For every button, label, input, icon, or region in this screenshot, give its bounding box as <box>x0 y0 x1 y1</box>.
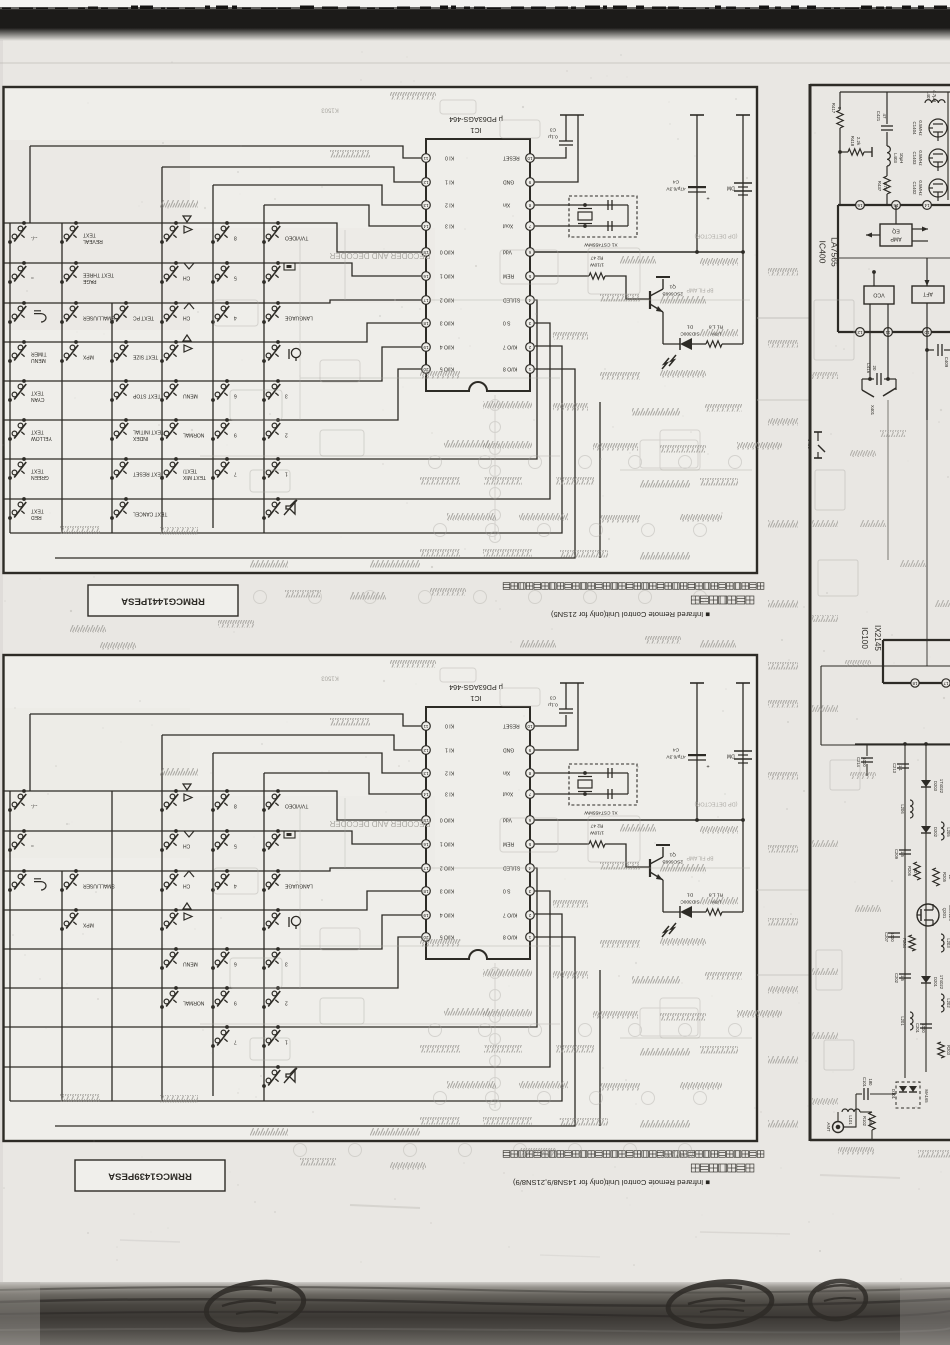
capacitor C209 <box>894 849 911 860</box>
svg-text:C1404: C1404 <box>912 122 917 135</box>
svg-text:C1403: C1403 <box>912 152 917 165</box>
resistor R206 <box>907 862 920 880</box>
svg-text:14: 14 <box>924 203 930 208</box>
svg-text:12: 12 <box>857 330 863 335</box>
switch SW text pc <box>110 301 154 324</box>
svg-text:13: 13 <box>423 203 429 208</box>
resistor R417 <box>831 92 843 205</box>
wire S1/LED net row 7 <box>4 868 537 1027</box>
ghost wash top-left matrix <box>5 140 190 330</box>
diode D101 MA165 <box>891 1082 929 1108</box>
svg-text:1: 1 <box>528 935 531 940</box>
key icon chevron <box>184 831 194 837</box>
IC100 pin 18 <box>911 679 919 687</box>
wire Vdd rail <box>535 251 743 253</box>
wire key column 1 <box>9 791 11 1101</box>
svg-text:C209: C209 <box>894 849 899 860</box>
key icon mute <box>284 1068 297 1083</box>
svg-text:SMALL/USER: SMALL/USER <box>83 883 115 889</box>
svg-text:X1 CST455MW: X1 CST455MW <box>584 242 618 248</box>
wire R2 to base <box>605 276 650 299</box>
ghost wash top-left matrix <box>5 708 190 858</box>
capacitor C421 <box>876 92 893 146</box>
pin 19 KI/O 4 <box>422 343 454 352</box>
svg-text:MENU: MENU <box>183 961 198 967</box>
wire aux vertical <box>599 970 601 1126</box>
switch SW iq <box>262 340 280 363</box>
bottom page curl band <box>0 1282 950 1345</box>
svg-text:μ PD63AGS-464: μ PD63AGS-464 <box>449 115 503 124</box>
svg-text:NORMAL: NORMAL <box>183 432 205 438</box>
switch SW key6 <box>211 379 237 402</box>
wire down to IF <box>926 420 928 666</box>
switch SW -/- <box>8 221 37 244</box>
svg-text:MENU: MENU <box>183 393 198 399</box>
resistor R2 <box>535 823 605 847</box>
svg-text:TEXT INITIAL: TEXT INITIAL <box>133 429 164 435</box>
switch SW text yellow <box>8 418 52 441</box>
switch SW text size <box>110 340 158 363</box>
switch SW vol up <box>160 340 178 363</box>
svg-text:TEXT STOP: TEXT STOP <box>132 393 160 399</box>
switch SW key2 <box>262 418 288 441</box>
pin 5 REM <box>503 840 534 849</box>
capacitor C4 <box>666 115 710 252</box>
resistor R1 <box>692 324 743 347</box>
tuner wires <box>843 1094 856 1127</box>
svg-text:○: ○ <box>31 843 34 849</box>
switch SW ch up <box>160 301 190 324</box>
switch SW mpx <box>60 340 94 363</box>
switch SW key9 <box>211 986 237 1009</box>
svg-text:6: 6 <box>528 818 531 823</box>
wire GND riser <box>535 683 578 750</box>
svg-text:BP FIL AMP: BP FIL AMP <box>686 287 714 293</box>
inductor L201 <box>900 1012 913 1030</box>
switch SW key7 <box>211 457 237 480</box>
switch SW text mix <box>160 457 206 480</box>
capacitor C4 <box>666 683 710 820</box>
svg-text:2.2k: 2.2k <box>856 137 861 146</box>
stamp mark right <box>666 1278 773 1331</box>
svg-text:8: 8 <box>528 203 531 208</box>
capacitor C101 <box>856 1077 896 1100</box>
resonator X1 CST455MW <box>535 764 637 816</box>
svg-text:0.5MHz: 0.5MHz <box>918 180 923 195</box>
svg-text:2: 2 <box>285 432 288 438</box>
wire key column 5 <box>212 185 214 528</box>
svg-text:C4: C4 <box>673 747 679 753</box>
svg-text:19: 19 <box>423 345 429 350</box>
pin 14 KI 3 <box>422 222 454 231</box>
svg-text:R417: R417 <box>831 103 836 114</box>
svg-text:KI 2: KI 2 <box>445 202 454 208</box>
switch SW mute <box>262 497 280 520</box>
resistor R205 <box>933 868 950 886</box>
wire key column 4 <box>161 735 163 1101</box>
svg-text:R204: R204 <box>902 938 907 949</box>
gutter bleed hatches <box>768 268 798 276</box>
svg-text:0.1μ: 0.1μ <box>548 702 558 708</box>
svg-text:2: 2 <box>528 913 531 918</box>
ghost circle row between blocks <box>254 591 707 1157</box>
svg-text:KI 0: KI 0 <box>445 155 454 161</box>
svg-text:L203: L203 <box>946 938 950 948</box>
pin 8 Xin <box>503 769 535 778</box>
switch SW timer menu <box>8 340 46 363</box>
wire aux vertical <box>599 402 601 558</box>
svg-text:R203: R203 <box>946 1045 950 1056</box>
capacitor C416 and crystal <box>862 332 896 416</box>
wire key column 3 <box>111 303 113 533</box>
svg-text:16: 16 <box>423 842 429 847</box>
key icon arrows <box>183 335 192 352</box>
wire R2 to base <box>605 844 650 867</box>
svg-text:L205: L205 <box>946 827 950 837</box>
switch SW key3 <box>262 379 288 402</box>
svg-text:J408: J408 <box>807 439 812 449</box>
svg-text:VCO: VCO <box>873 292 884 298</box>
svg-text:11: 11 <box>423 724 428 729</box>
svg-text:CYAN: CYAN <box>31 396 45 402</box>
pin 9 GND <box>503 178 535 187</box>
gutter ghost wires <box>757 317 810 319</box>
IC100 pin 17 <box>942 679 950 687</box>
switch SW key1 <box>262 1025 288 1048</box>
svg-text:7: 7 <box>528 224 531 229</box>
svg-text:GND: GND <box>503 747 515 753</box>
svg-text:ANT: ANT <box>826 1122 831 1131</box>
svg-text:(DP DETECTOR): (DP DETECTOR) <box>694 233 737 239</box>
svg-text:13: 13 <box>423 771 429 776</box>
wire KI3 staircase <box>264 205 421 226</box>
svg-text:1.1: 1.1 <box>898 765 903 771</box>
transistor Q201 3SK129 <box>917 904 950 926</box>
wire KI/O row bus 5 <box>4 369 421 420</box>
svg-text:KI 2: KI 2 <box>445 770 454 776</box>
svg-text:KI 1: KI 1 <box>445 179 454 185</box>
ghost fold line <box>0 62 950 64</box>
svg-text:1.8k: 1.8k <box>868 1117 873 1126</box>
svg-text:Xout: Xout <box>502 791 513 797</box>
svg-text:KI/O 7: KI/O 7 <box>503 912 517 918</box>
key icon arrows <box>183 903 192 920</box>
wire KI/O row bus 0 <box>4 223 421 252</box>
svg-text:C416: C416 <box>866 363 871 374</box>
svg-text:1/10W: 1/10W <box>590 262 604 268</box>
svg-text:5: 5 <box>234 275 237 281</box>
svg-text:KI 3: KI 3 <box>445 791 454 797</box>
caption chinese title <box>691 596 754 604</box>
resistor R418 <box>840 136 872 157</box>
svg-text:TEXT THREE: TEXT THREE <box>82 272 114 278</box>
capacitor C201 <box>915 1023 932 1034</box>
svg-text:KI/O 3: KI/O 3 <box>440 320 454 326</box>
wire filter bus <box>947 92 949 200</box>
pin 4 S1/LED <box>503 296 535 305</box>
svg-text:KI 3: KI 3 <box>445 223 454 229</box>
svg-text:1.5: 1.5 <box>900 851 905 857</box>
resistor R102 <box>862 1112 875 1130</box>
svg-text:L101: L101 <box>848 1115 853 1125</box>
switch SW circle <box>8 829 34 852</box>
svg-text:4: 4 <box>234 315 237 321</box>
switch SW iq <box>262 908 280 931</box>
wire key column 3 <box>111 791 113 1101</box>
diode D201 <box>921 975 944 990</box>
bleed-through ghosts <box>200 100 742 543</box>
switch SW key8 <box>211 221 237 244</box>
capacitor C409 <box>925 332 950 420</box>
caption chinese title <box>691 1164 754 1172</box>
svg-text:9: 9 <box>528 748 531 753</box>
svg-text:IC100: IC100 <box>860 627 869 649</box>
svg-text:Xout: Xout <box>502 223 513 229</box>
pin 12 KI 1 <box>422 746 454 755</box>
switch SW text reset <box>110 457 164 480</box>
svg-text:KI/O 7: KI/O 7 <box>503 344 517 350</box>
svg-text:BP FIL AMP: BP FIL AMP <box>686 855 714 861</box>
svg-text:19: 19 <box>423 913 429 918</box>
svg-text:AFT: AFT <box>922 291 933 297</box>
bleed hatch marks <box>620 824 656 832</box>
wire KI/O8 net bottom bus <box>55 937 575 1126</box>
inductor L203 <box>941 934 950 952</box>
svg-text:IX2145: IX2145 <box>873 625 882 651</box>
svg-text:RED: RED <box>31 514 42 520</box>
svg-text:9: 9 <box>234 1000 237 1006</box>
svg-text:LANGUAGE: LANGUAGE <box>284 883 312 889</box>
scan bar top <box>0 6 950 42</box>
pin 3 S 0 <box>503 887 535 896</box>
svg-text:Xin: Xin <box>503 202 510 208</box>
wire top rail <box>840 91 950 93</box>
svg-text:Xin: Xin <box>503 770 510 776</box>
wire key column 6 <box>263 773 265 1101</box>
switch SW vol <box>160 221 178 244</box>
svg-text:REM: REM <box>503 841 514 847</box>
switch SW key3 <box>262 947 288 970</box>
wire osc to IF <box>887 400 889 560</box>
svg-text:C202: C202 <box>894 973 899 984</box>
switch SW sleep <box>8 301 26 324</box>
svg-text:R206: R206 <box>907 866 912 877</box>
transistor Q1 2SC666B <box>650 845 683 912</box>
pin 6 Vdd <box>503 816 535 825</box>
svg-text:KI/O 0: KI/O 0 <box>440 817 454 823</box>
switch SW circle <box>8 261 34 284</box>
svg-text:EQ: EQ <box>892 228 900 234</box>
key icon chevron <box>184 303 194 309</box>
wire KI2 staircase <box>213 753 421 773</box>
pin 14 KI 3 <box>422 790 454 799</box>
svg-text:CH: CH <box>183 275 191 281</box>
wire Vdd to R1 <box>742 820 744 912</box>
switch SW menu <box>160 947 198 970</box>
svg-text:2SC666B: 2SC666B <box>662 859 683 865</box>
svg-text:82: 82 <box>913 869 918 874</box>
wire S0 net row 8 <box>4 891 550 1067</box>
wire IF rail <box>855 743 950 745</box>
pin 20 KI/O 5 <box>422 933 454 942</box>
svg-text:CH: CH <box>183 883 191 889</box>
svg-text:C421: C421 <box>876 111 881 122</box>
svg-text:NORMAL: NORMAL <box>183 1000 205 1006</box>
IC400 top pin 16 <box>856 201 865 210</box>
svg-text:8: 8 <box>234 803 237 809</box>
pin 3 S 0 <box>503 319 535 328</box>
capacitor C202 <box>894 973 911 984</box>
svg-text:C4: C4 <box>673 179 679 185</box>
key icon display <box>284 831 295 838</box>
resistor R204 <box>902 935 915 951</box>
pin 13 KI 2 <box>422 201 454 210</box>
amp EQ AMP <box>866 205 928 246</box>
svg-text:PAGE: PAGE <box>82 278 96 284</box>
LED D1 <box>662 324 700 369</box>
svg-text:R437: R437 <box>877 181 882 192</box>
wire KI/O7 net bottom bus <box>10 914 562 1101</box>
switch SW key7 <box>211 1025 237 1048</box>
svg-text:LANGUAGE: LANGUAGE <box>284 315 312 321</box>
IC400 bottom pin 11 <box>884 328 893 337</box>
switch SW text reveal <box>60 221 103 244</box>
svg-text:5: 5 <box>528 274 531 279</box>
switch SW display <box>262 261 280 284</box>
svg-text:MPX: MPX <box>82 354 94 360</box>
switch SW key8 <box>211 789 237 812</box>
switch SW mpx <box>60 908 94 931</box>
svg-text:D201: D201 <box>933 977 938 988</box>
capacitor C214 <box>856 744 873 776</box>
svg-text:TEXT: TEXT <box>31 508 44 514</box>
svg-text:K1503: K1503 <box>321 106 339 112</box>
svg-text:μ PD63AGS-464: μ PD63AGS-464 <box>449 683 503 692</box>
svg-text:KI/O 5: KI/O 5 <box>440 934 454 940</box>
wire KI/O row bus 4 <box>4 915 421 949</box>
svg-text:+: + <box>706 763 709 769</box>
svg-text:C1402: C1402 <box>912 182 917 195</box>
svg-text:R1 1.8: R1 1.8 <box>709 324 723 330</box>
wire KI/O7 net bottom bus <box>10 346 562 533</box>
inductor L407 <box>925 90 945 103</box>
block AFT <box>912 258 944 332</box>
wire key column 6 <box>263 205 265 533</box>
svg-text:9: 9 <box>528 180 531 185</box>
svg-text:IC1: IC1 <box>470 126 481 135</box>
switch SW mute <box>262 1065 280 1088</box>
inductor L205 <box>941 822 950 840</box>
svg-text:14: 14 <box>423 224 429 229</box>
jack J408 <box>807 432 825 458</box>
svg-text:DECODER AND DECODER: DECODER AND DECODER <box>329 251 430 260</box>
key icon display <box>284 263 295 270</box>
svg-text:6: 6 <box>528 250 531 255</box>
page left edge <box>0 40 3 1283</box>
wire KI3 staircase <box>264 773 421 794</box>
battery DM <box>727 683 752 820</box>
svg-text:R205: R205 <box>942 872 947 883</box>
svg-text:7: 7 <box>234 1039 237 1045</box>
svg-text:L407: L407 <box>926 91 931 101</box>
svg-text:RESET: RESET <box>503 723 520 729</box>
svg-text:Q201: Q201 <box>942 908 947 919</box>
svg-text:8: 8 <box>234 235 237 241</box>
right column ghosts <box>814 300 860 1070</box>
IC400 top pin 14 <box>923 201 932 210</box>
svg-text:3: 3 <box>528 889 531 894</box>
right schematic border <box>810 84 950 1141</box>
svg-text:C101: C101 <box>862 1077 867 1088</box>
svg-text:AMP: AMP <box>890 236 902 242</box>
switch SW normal <box>160 418 204 441</box>
svg-text:1T4022: 1T4022 <box>939 975 944 990</box>
svg-text:R1 1.8: R1 1.8 <box>709 892 723 898</box>
svg-text:RRMCG1441PESA: RRMCG1441PESA <box>121 595 205 606</box>
svg-text:TV/VIDEO: TV/VIDEO <box>285 803 308 809</box>
svg-text:MENU: MENU <box>31 357 46 363</box>
svg-text:1000: 1000 <box>862 757 867 767</box>
wire KI/O row bus 3 <box>4 323 421 342</box>
svg-text:47: 47 <box>882 114 887 119</box>
svg-text:■ Infrared Remote Control Unit: ■ Infrared Remote Control Unit(only for … <box>512 1178 710 1187</box>
svg-text:REVEAL: REVEAL <box>83 238 103 244</box>
pin 5 REM <box>503 272 534 281</box>
svg-text:3: 3 <box>528 321 531 326</box>
resistor R1 <box>692 892 743 915</box>
svg-text:2: 2 <box>528 345 531 350</box>
ceramic filter C1404 <box>912 119 947 141</box>
stamp mark left <box>203 1276 306 1335</box>
switch SW small user <box>60 869 115 892</box>
ghost wire traces <box>230 230 752 492</box>
pin 13 KI 2 <box>422 769 454 778</box>
svg-text:7: 7 <box>528 792 531 797</box>
block border remote unit 2 <box>4 655 758 1141</box>
svg-text:1000: 1000 <box>921 1023 926 1033</box>
svg-text:SMALL/USER: SMALL/USER <box>83 315 115 321</box>
svg-text:2: 2 <box>285 1000 288 1006</box>
pin 4 S1/LED <box>503 864 535 873</box>
svg-text:L201: L201 <box>900 1016 905 1026</box>
battery DM <box>727 115 752 252</box>
svg-text:TEXT: TEXT <box>31 390 44 396</box>
svg-text:IC1: IC1 <box>470 694 481 703</box>
switch SW text stop <box>110 379 161 402</box>
switch SW vol <box>160 789 178 812</box>
pin 16 KI/O 1 <box>422 840 454 849</box>
pin 20 KI/O 5 <box>422 365 454 374</box>
wire Vdd rail <box>535 819 743 821</box>
wire key column 2 <box>61 871 63 1101</box>
svg-text:TEXT/: TEXT/ <box>182 468 197 474</box>
svg-text:2SC666B: 2SC666B <box>662 291 683 297</box>
wire KI1 staircase <box>162 167 421 182</box>
inductor L206 <box>900 800 913 818</box>
pin 12 KI 1 <box>422 178 454 187</box>
svg-text:KI/O 4: KI/O 4 <box>440 912 454 918</box>
svg-text:1T4022: 1T4022 <box>939 779 944 794</box>
svg-text:47μ/6.3V: 47μ/6.3V <box>666 754 686 760</box>
svg-text:SID300C: SID300C <box>680 331 700 337</box>
wire KI/O row bus 5 <box>4 937 421 988</box>
svg-text:X1 CST455MW: X1 CST455MW <box>584 810 618 816</box>
svg-text:IC400: IC400 <box>818 241 828 264</box>
svg-text:--/-: --/- <box>31 235 38 241</box>
key icon chevron <box>184 263 194 269</box>
svg-text:KI/O 1: KI/O 1 <box>440 273 454 279</box>
label box RRMCG1441PESA <box>88 585 238 616</box>
